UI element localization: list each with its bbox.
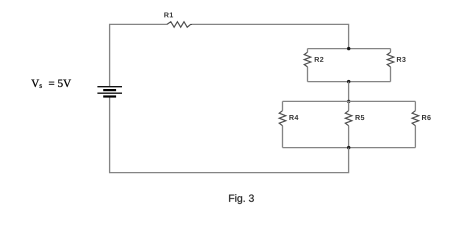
- figure caption Fig. 3: [229, 194, 254, 204]
- wire: middle link between sections: [348, 82, 350, 102]
- battery V1 plate long bottom: [97, 92, 122, 94]
- source value label Vs = 5V: [31, 80, 71, 88]
- resistor R3: [387, 52, 394, 67]
- node: junction bottom rail R2R3: [347, 80, 350, 83]
- resistor R1: [167, 22, 192, 28]
- wire: R4R5R6 top rail: [283, 100, 416, 102]
- R2 label: [315, 57, 324, 62]
- wire: R6 branch leads: [414, 101, 416, 110]
- wire: R4R5R6 bottom rail: [283, 147, 416, 149]
- R1 label: [164, 12, 173, 17]
- wire: R5 branch leads: [348, 101, 350, 110]
- R4 label: [289, 115, 298, 120]
- resistor R6: [412, 111, 419, 126]
- wire top: battery top to R1: [110, 24, 167, 86]
- battery V1 plate short 1: [103, 89, 116, 91]
- node: junction top rail R4R5R6: [347, 100, 350, 103]
- wire: bottom return to battery: [110, 96, 349, 172]
- node: junction top rail R2R3: [347, 47, 350, 50]
- resistor R2: [304, 52, 311, 67]
- resistor R4: [279, 111, 286, 126]
- battery V1 plate short 2: [103, 95, 116, 97]
- wire: R3 branch leads: [390, 49, 392, 53]
- wire: R2 branch leads: [307, 49, 309, 53]
- wire: R1 to top-right corner, down to R2R3 top rail: [192, 24, 349, 48]
- R3 label: [397, 57, 406, 62]
- node: junction bottom rail R4R5R6: [347, 146, 350, 149]
- wire: R4 branch leads: [282, 101, 284, 110]
- battery V1 plate long top: [97, 86, 122, 88]
- R6 label: [422, 115, 431, 120]
- resistor R5: [345, 111, 352, 126]
- wire: R2R3 top rail: [308, 48, 391, 50]
- wire: R2R3 bottom rail: [308, 81, 391, 83]
- R5 label: [355, 115, 364, 120]
